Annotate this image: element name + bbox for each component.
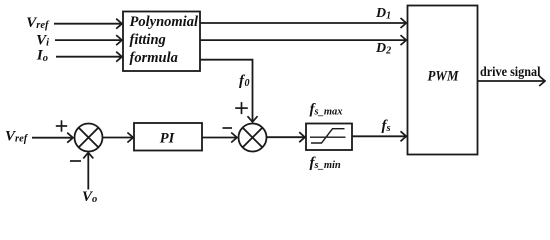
wire PI to summing junction S2 <box>202 137 237 139</box>
wire f0 (polynomial block down to summing junction S2) <box>200 60 253 122</box>
svg-text:fitting: fitting <box>130 32 166 48</box>
svg-text:drive signal: drive signal <box>480 64 541 79</box>
wire S2 to saturation block <box>267 136 306 138</box>
svg-text:Polynomial: Polynomial <box>130 14 198 30</box>
wire saturation to PWM (fs) <box>352 135 406 137</box>
block U1 Polynomial fitting formula <box>123 12 200 72</box>
wire D1 (polynomial block to PWM) <box>200 22 406 24</box>
summing junction S2 <box>239 124 267 152</box>
sign plus at S1 <box>56 120 67 131</box>
wire Vref input to polynomial block <box>54 23 122 25</box>
sign minus at S1 <box>70 160 81 162</box>
svg-text:PI: PI <box>160 131 176 147</box>
wire Vo up into S1 <box>87 153 89 190</box>
sign plus at S2 <box>235 102 248 114</box>
wire drive signal output <box>478 80 546 82</box>
block saturation limiter <box>306 124 352 151</box>
svg-text:PWM: PWM <box>428 69 460 85</box>
wire Io input to polynomial block <box>56 56 122 58</box>
block PI controller <box>134 123 202 151</box>
block PWM <box>408 6 478 155</box>
wire Vref to summing junction S1 <box>32 137 73 139</box>
wire Vi input to polynomial block <box>55 39 122 41</box>
svg-text:formula: formula <box>130 50 178 66</box>
wire D2 (polynomial block to PWM) <box>200 39 406 41</box>
summing junction S1 <box>75 124 103 152</box>
sign minus at S2 <box>223 127 233 129</box>
wire S1 to PI block <box>103 137 134 139</box>
